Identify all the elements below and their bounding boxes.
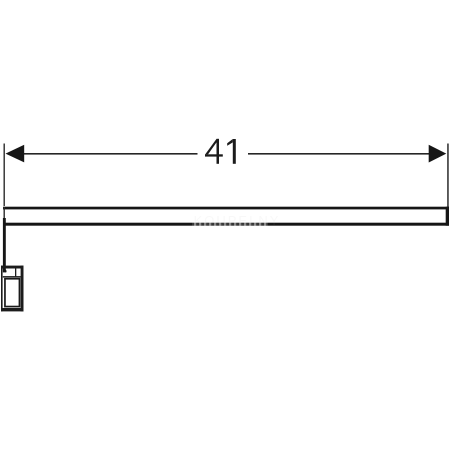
glass panel hanger line <box>3 218 6 272</box>
watermark dashes over bar bottom line <box>192 223 268 226</box>
bar top edge <box>3 207 449 210</box>
extension line right <box>447 144 449 208</box>
hanger bottom hook <box>5 270 7 273</box>
bar right edge <box>446 207 449 226</box>
bracket top divider <box>3 276 21 278</box>
dimension line left segment <box>20 153 198 155</box>
arrowhead right <box>429 145 447 163</box>
digit 4 crossbar <box>205 154 223 156</box>
bracket outer left edge <box>1 266 3 312</box>
bracket outer right edge <box>21 266 24 312</box>
bracket vertical divider <box>15 268 16 276</box>
dimension line right segment <box>248 153 430 155</box>
bracket outer top edge <box>1 266 24 269</box>
bar left edge <box>4 207 5 219</box>
arrowhead left <box>6 145 25 163</box>
digit 1 stem <box>233 139 236 164</box>
digit 1 flag <box>227 139 233 146</box>
digit 4 stem <box>217 139 220 164</box>
bracket inner plate <box>5 279 20 307</box>
bar bottom edge <box>3 223 449 226</box>
extension line left <box>4 144 5 207</box>
digit 4 diagonal <box>205 139 219 155</box>
dimension text 41 <box>205 139 236 164</box>
bracket outer bottom edge <box>1 308 24 311</box>
